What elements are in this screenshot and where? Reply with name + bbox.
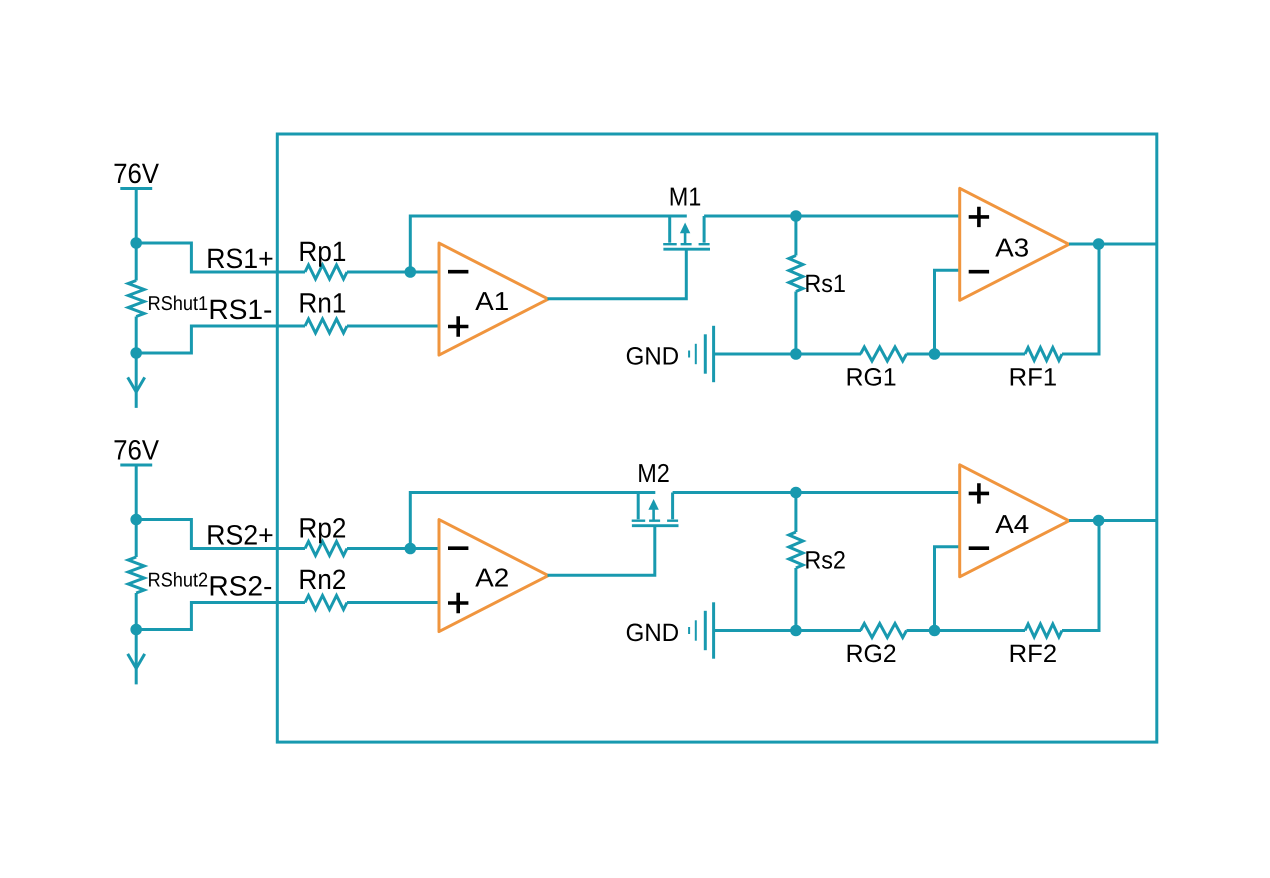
label Rs1 xyxy=(806,275,844,292)
wire: RG1 to RF1 xyxy=(907,353,1026,356)
label 76V (channel 1) xyxy=(115,163,159,183)
node: Rs2 top junction xyxy=(790,487,802,499)
wire: M2 source to Rs2 and A4 non-inverting input xyxy=(673,491,960,494)
wire Rs1 branch top xyxy=(794,216,797,256)
resistor RF2 xyxy=(1025,624,1062,637)
resistor RShut2 xyxy=(128,557,144,593)
wire: ground bus through RG1 xyxy=(715,353,861,356)
label A1 xyxy=(475,292,508,310)
node: A4 output junction xyxy=(1093,515,1105,527)
transistor M2 xyxy=(637,493,640,520)
node: feedback junction RG1/RF1 xyxy=(929,348,941,360)
node: feedback junction RG2/RF2 xyxy=(929,625,941,637)
wire RS2- from shunt bottom, through Rn2, to A2 non-inverting input xyxy=(136,603,305,630)
resistor Rn1 xyxy=(305,319,347,333)
wire Rs1 branch bottom xyxy=(794,292,797,355)
label Rs2 xyxy=(806,551,844,569)
resistor Rs2 xyxy=(789,532,803,568)
label RF2 xyxy=(1011,645,1056,662)
wire: ground bus through RG2 xyxy=(715,629,861,632)
IC boundary box xyxy=(277,134,1157,742)
wire: 76V rail down through RShut1 to arrow xyxy=(135,189,138,281)
wire: inverting input up to M1 drain rail xyxy=(410,216,687,272)
wire: RF1 up to output node xyxy=(1062,244,1099,354)
node: RShut2 bottom junction xyxy=(130,624,142,636)
label M2 xyxy=(639,464,668,482)
node: RShut1 top junction xyxy=(130,237,142,249)
wire Rn2 to op-amp xyxy=(347,601,439,604)
ground symbol (channel 2) xyxy=(688,627,690,634)
label M1 xyxy=(671,188,700,206)
wire RS2+ from shunt top, through Rp2, to A2 inverting input xyxy=(136,520,305,549)
node: A2 inverting input junction xyxy=(405,543,417,555)
op-amp A3 xyxy=(960,188,1069,300)
wire: A4 output to boundary xyxy=(1069,519,1157,522)
node: Rs1 top junction xyxy=(790,210,802,222)
label RG1 xyxy=(848,368,896,386)
wire: RG2 to RF2 xyxy=(907,629,1026,632)
wire Rp2 to op-amp xyxy=(347,547,439,550)
wire: A3 inverting input xyxy=(935,270,960,354)
wire below RShut1 xyxy=(135,317,138,408)
node: RShut1 bottom junction xyxy=(130,347,142,359)
resistor Rp2 xyxy=(305,542,347,556)
resistor Rn2 xyxy=(305,596,347,610)
wire: A4 inverting input xyxy=(935,547,960,631)
node: A3 output junction xyxy=(1093,238,1105,250)
wire: A1 output to M1 gate xyxy=(548,249,687,299)
net 76V supply bar (channel 1) xyxy=(120,187,152,190)
wire below RShut2 xyxy=(135,593,138,684)
wire: A3 output to boundary xyxy=(1069,243,1157,246)
wire Rs2 branch bottom xyxy=(794,568,797,631)
current arrow (channel 2) xyxy=(128,654,145,669)
label RShut1 xyxy=(149,296,207,311)
resistor Rs1 xyxy=(789,256,803,292)
label Rn2 xyxy=(301,569,346,589)
label GND (channel 1) xyxy=(627,347,678,365)
label A2 xyxy=(475,568,508,586)
wire RS1- from shunt bottom, through Rn1, to A1 non-inverting input xyxy=(136,326,305,353)
transistor M1 xyxy=(668,216,671,243)
wire Rp1 to op-amp xyxy=(347,271,439,274)
label RG2 xyxy=(848,645,896,663)
wire: M1 source to Rs1 and A3 non-inverting input xyxy=(704,215,960,218)
wire: inverting input up to M2 drain rail xyxy=(410,493,655,549)
label A3 xyxy=(995,238,1028,256)
node: A1 inverting input junction xyxy=(405,266,417,278)
label RS1- xyxy=(211,299,271,319)
label Rp1 xyxy=(301,242,346,267)
label RS1+ xyxy=(208,248,272,268)
label RShut2 xyxy=(149,572,207,587)
label RS2+ xyxy=(208,525,272,545)
wire: RF2 up to output node xyxy=(1062,521,1099,631)
op-amp A4 xyxy=(960,465,1069,577)
resistor RF1 xyxy=(1025,348,1062,361)
node: Rs2 bottom junction xyxy=(790,625,802,637)
node: Rs1 bottom junction xyxy=(790,348,802,360)
wire Rs2 branch top xyxy=(794,493,797,533)
label GND (channel 2) xyxy=(627,624,678,642)
label RF1 xyxy=(1011,368,1056,385)
resistor RG2 xyxy=(861,624,907,638)
label Rn1 xyxy=(301,293,346,312)
resistor RShut1 xyxy=(128,281,144,317)
label RS2- xyxy=(211,576,271,596)
wire: A2 output to M2 gate xyxy=(548,526,655,576)
current arrow (channel 1) xyxy=(128,377,145,392)
resistor RG1 xyxy=(861,347,907,361)
label Rp2 xyxy=(301,518,346,543)
label 76V (channel 2) xyxy=(115,440,159,460)
node: RShut2 top junction xyxy=(130,514,142,526)
ground symbol (channel 1) xyxy=(688,351,690,358)
wire: 76V rail down through RShut2 to arrow xyxy=(135,465,138,557)
op-amp A1 xyxy=(439,243,548,355)
net 76V supply bar (channel 2) xyxy=(120,464,152,467)
label A4 xyxy=(995,515,1028,533)
op-amp A2 xyxy=(439,520,548,632)
wire RS1+ from shunt top, through Rp1, to A1 inverting input xyxy=(136,243,305,272)
wire Rn1 to op-amp xyxy=(347,325,439,328)
resistor Rp1 xyxy=(305,265,347,279)
